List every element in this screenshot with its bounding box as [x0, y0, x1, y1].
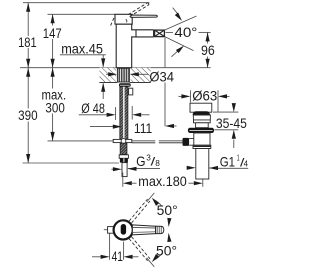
- svg-text:max.180: max.180: [138, 174, 187, 189]
- cartridge detail arc: [126, 19, 127, 22]
- arrow upper arc outer: [150, 196, 159, 206]
- svg-text:Ø63: Ø63: [192, 89, 217, 104]
- aerator cross: [155, 30, 164, 36]
- ext left from nozzle: [109, 233, 111, 259]
- deck bottom line left: [99, 82, 117, 84]
- arrow 390 top: [26, 68, 30, 77]
- arrow 181 top: [26, 3, 30, 12]
- waste neck: [196, 123, 209, 128]
- pop-up rod bracket: [129, 88, 133, 95]
- locknut: [188, 128, 214, 133]
- svg-text:4: 4: [244, 158, 249, 168]
- hose cross fitting: [113, 139, 132, 142]
- lower axis extension: [147, 258, 155, 267]
- arrow lower arc outer: [150, 254, 159, 264]
- svg-text:35-45: 35-45: [216, 116, 247, 131]
- upper axis extension: [147, 193, 155, 202]
- arrow shank left: [108, 72, 117, 76]
- dashed lever down 50deg: [129, 237, 150, 261]
- arrow shank right: [130, 72, 139, 76]
- tick left: [189, 90, 191, 102]
- svg-text:111: 111: [134, 121, 152, 136]
- extension from aerator to 96 line: [166, 31, 174, 33]
- cartridge block: [115, 14, 132, 24]
- arrow 96 top: [206, 32, 210, 41]
- dimension 181 line: [27, 3, 29, 36]
- arrow 147 top: [51, 14, 55, 23]
- arrow max180 right: [194, 181, 203, 185]
- arrow max.300 top: [51, 68, 55, 77]
- svg-text:Ø34: Ø34: [149, 69, 174, 84]
- lower arc inner tick: [168, 239, 170, 241]
- svg-text:41: 41: [112, 249, 123, 264]
- lever tip cap: [156, 226, 164, 233]
- upper arc tail: [154, 200, 162, 207]
- svg-text:147: 147: [43, 26, 62, 41]
- waste side port: [189, 139, 194, 146]
- arrow d63 left: [181, 94, 190, 98]
- tick left: [115, 107, 117, 120]
- arrow 390 bottom: [26, 154, 30, 163]
- arrow upper arc inner: [167, 218, 172, 227]
- pipe flange: [119, 155, 128, 159]
- svg-text:Ø 48: Ø 48: [81, 101, 105, 116]
- svg-text:390: 390: [18, 108, 37, 123]
- dimension 147 line: [52, 14, 54, 25]
- svg-text:96: 96: [201, 43, 215, 58]
- ext right from circle: [123, 242, 125, 260]
- arrow 111 right: [165, 124, 174, 128]
- arrow max180 left: [123, 181, 132, 185]
- svg-text:8: 8: [155, 158, 160, 168]
- aerator ball joint: [155, 30, 165, 36]
- label underline: [216, 167, 248, 169]
- svg-text:max.45: max.45: [61, 41, 103, 56]
- arrow 96 bottom: [206, 59, 210, 68]
- body column: [116, 24, 132, 68]
- upper pointer tail: [173, 8, 179, 15]
- extension line lever top: [23, 2, 150, 4]
- dimension max.300 line: [52, 68, 54, 89]
- extension line pipe end level: [23, 162, 119, 164]
- waste body: [194, 133, 210, 145]
- pipe nut: [120, 158, 128, 162]
- extension line aerator vertical: [164, 38, 166, 68]
- arrow G38 right: [128, 167, 137, 171]
- arrow 41 right: [124, 255, 133, 259]
- arrow G38 left: [113, 167, 122, 171]
- arrow d48 right: [132, 113, 141, 117]
- coupling ring: [193, 145, 211, 148]
- tick right: [131, 106, 133, 120]
- arrow G114 left: [187, 166, 196, 170]
- svg-text:300: 300: [45, 100, 64, 115]
- upper arc inner tick: [168, 219, 170, 221]
- tick right: [217, 90, 219, 111]
- max.45 lower arrow tail: [102, 84, 104, 100]
- arrow 35-45 bottom: [232, 130, 236, 139]
- ext flange underside: [213, 111, 238, 113]
- label underline: [128, 168, 160, 170]
- svg-text:50°: 50°: [157, 203, 178, 218]
- lower arc tail: [154, 253, 162, 260]
- arrow max.300 bottom: [51, 132, 55, 141]
- supply hoses: [120, 87, 128, 140]
- deck bottom line right: [130, 82, 151, 84]
- spout tube: [131, 30, 153, 36]
- tailpipe G1 1/4: [196, 149, 209, 180]
- fitting node: [121, 139, 126, 144]
- svg-text:50°: 50°: [156, 243, 177, 258]
- arrow G114 right: [209, 166, 218, 170]
- threaded shank: [117, 68, 129, 82]
- cartridge pill: [121, 224, 126, 235]
- dim line under label: [79, 114, 107, 116]
- supply pipe G3/8: [122, 163, 127, 177]
- lever handle dashed 40 degrees: [111, 3, 149, 26]
- svg-text:40°: 40°: [174, 25, 197, 40]
- ext locknut top: [214, 129, 238, 131]
- mounting nut: [119, 83, 131, 87]
- extension line deck top left: [20, 67, 116, 69]
- arrow max.45 to deck top: [101, 58, 105, 67]
- flange body: [193, 115, 210, 123]
- nozzle leader: [104, 229, 114, 231]
- supply pipe thread: [120, 143, 127, 154]
- arrow d48 left: [107, 113, 116, 117]
- dimension 96 line: [207, 32, 209, 43]
- arrow 35-45 top: [232, 103, 236, 112]
- arrow d63 right: [218, 94, 227, 98]
- arrow 181 bottom: [26, 59, 30, 68]
- right extension: [202, 150, 204, 187]
- body circle: [114, 220, 133, 239]
- arrow 147 bottom: [51, 59, 55, 68]
- svg-text:G: G: [136, 154, 145, 169]
- lower fan line: [165, 37, 194, 51]
- plug dome dark band: [193, 111, 210, 115]
- arrow 111 left: [113, 125, 122, 129]
- dimension 390 line: [27, 68, 29, 109]
- flange upper cylinder: [190, 103, 212, 112]
- arrow max.45 to deck bottom: [101, 83, 105, 92]
- rod knob: [183, 138, 190, 146]
- extension line hose end level: [48, 140, 114, 142]
- svg-text:G1: G1: [220, 154, 235, 169]
- svg-text:181: 181: [18, 35, 37, 50]
- dashed lever up 50deg: [129, 199, 150, 223]
- arrow 41 left: [101, 255, 110, 259]
- nozzle tab: [108, 227, 114, 234]
- deck hatch left: [99, 68, 116, 83]
- lever plan: [132, 225, 155, 235]
- deck hatch right: [131, 68, 151, 83]
- upper fan line: [165, 16, 197, 30]
- arrow at lower fan: [176, 44, 185, 53]
- lever handle solid: [131, 15, 157, 17]
- left extension: [122, 173, 124, 187]
- extension line deck top right: [132, 67, 211, 69]
- lower pointer tail: [171, 50, 178, 56]
- arrow at upper fan: [175, 13, 184, 23]
- max.45 underline leader: [60, 54, 106, 56]
- arrow lower arc inner: [167, 233, 172, 242]
- extension line body top: [48, 13, 115, 15]
